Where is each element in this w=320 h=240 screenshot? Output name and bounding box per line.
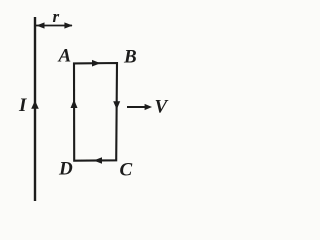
velocity arrow <box>127 106 146 108</box>
svg-text:A: A <box>58 46 72 67</box>
wire: long straight conductor <box>34 17 36 201</box>
svg-text:D: D <box>58 159 73 180</box>
arrow on side BC (down) <box>113 101 120 109</box>
svg-text:C: C <box>120 160 133 181</box>
arrow on side DA (up) <box>71 100 78 109</box>
velocity arrowhead (right) <box>145 104 152 110</box>
arrow on side AB (right) <box>92 60 101 67</box>
svg-text:B: B <box>123 47 137 68</box>
svg-text:r: r <box>53 7 60 26</box>
loop ABCD rectangle <box>74 63 117 161</box>
svg-text:I: I <box>18 95 27 116</box>
svg-text:V: V <box>155 97 169 118</box>
dimension arrowhead right <box>64 22 72 28</box>
arrow on side CD (left) <box>94 157 103 164</box>
current arrowhead on wire (up) <box>31 101 39 109</box>
dimension line r <box>36 25 72 27</box>
dimension arrowhead left (at wire) <box>36 22 44 28</box>
